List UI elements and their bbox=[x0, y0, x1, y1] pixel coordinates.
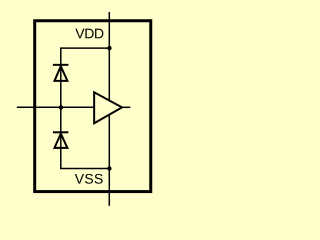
VDD pin stub bbox=[108, 12, 110, 48]
wire: amp negative supply bbox=[108, 115, 110, 169]
wire: amp positive supply bbox=[108, 48, 110, 100]
node: VDD junction dot bbox=[107, 46, 111, 50]
diode D2 triangle bbox=[55, 134, 68, 148]
VSS label bbox=[75, 174, 103, 184]
diode D2 cathode bar bbox=[53, 131, 69, 133]
VSS pin stub bbox=[108, 169, 110, 206]
diode D1 triangle bbox=[55, 66, 68, 81]
IC body border bbox=[35, 21, 151, 192]
VDD label bbox=[75, 29, 103, 39]
node: input junction dot bbox=[59, 105, 63, 109]
wire: VDD rail and left diode branch bbox=[61, 48, 110, 168]
diode D1 cathode bar bbox=[53, 64, 69, 66]
op-amp buffer U1 bbox=[94, 92, 122, 123]
wire: input line bbox=[17, 106, 94, 108]
node: VSS junction dot bbox=[107, 166, 111, 170]
wire: output stub bbox=[121, 106, 131, 108]
